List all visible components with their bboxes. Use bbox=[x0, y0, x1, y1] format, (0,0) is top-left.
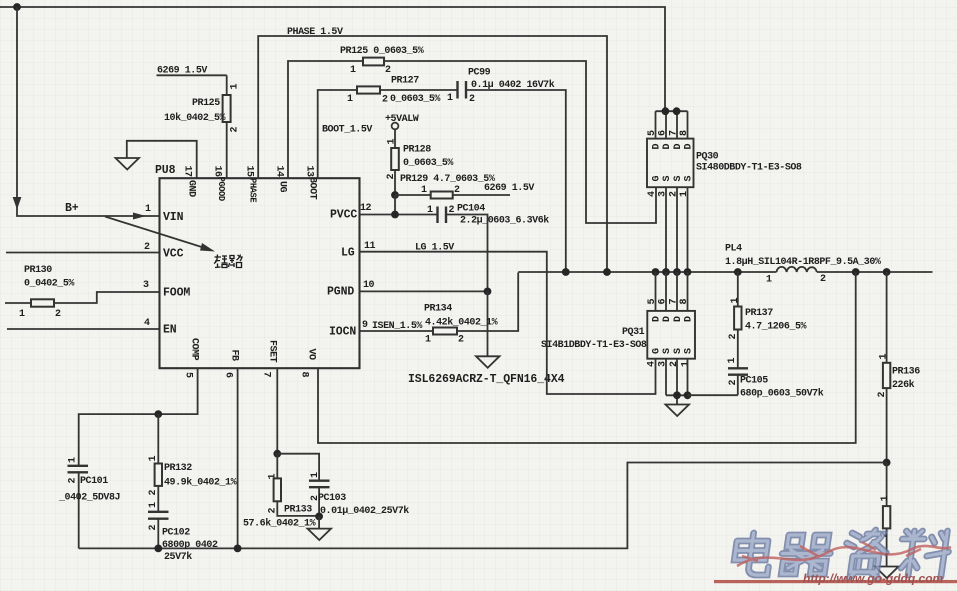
pin 16 PGOOD bbox=[212, 166, 227, 201]
wire B+ drop to VIN bbox=[17, 7, 160, 216]
svg-text:13: 13 bbox=[304, 166, 315, 178]
svg-text:SI480DBDY-T1-E3-SO8: SI480DBDY-T1-E3-SO8 bbox=[696, 163, 802, 174]
svg-text:BOOT_1.5V: BOOT_1.5V bbox=[322, 125, 372, 136]
svg-text:D: D bbox=[684, 144, 695, 150]
wire PQ31 drains to rail bbox=[656, 272, 688, 311]
svg-text:1: 1 bbox=[19, 309, 25, 320]
svg-text:2: 2 bbox=[820, 274, 826, 285]
node junction rail VO bbox=[852, 268, 860, 276]
resistor PR128 bbox=[386, 130, 453, 196]
pin 6 FB bbox=[223, 350, 240, 379]
svg-text:D: D bbox=[662, 316, 673, 322]
svg-text:G: G bbox=[652, 348, 663, 354]
svg-text:S: S bbox=[684, 348, 695, 354]
pin numbers PQ30 top 5 6 7 8 bbox=[647, 130, 690, 136]
svg-text:S: S bbox=[673, 348, 684, 354]
resistor PR133 bbox=[243, 454, 319, 530]
resistor PR132 bbox=[148, 414, 237, 512]
svg-text:57.6k_0402_1%: 57.6k_0402_1% bbox=[243, 518, 316, 530]
svg-text:PC105: PC105 bbox=[740, 376, 768, 387]
wire PR134 to phase rail corner bbox=[457, 273, 518, 332]
svg-text:PR133: PR133 bbox=[284, 505, 312, 516]
svg-text:4.7_1206_5%: 4.7_1206_5% bbox=[745, 322, 807, 333]
svg-text:15: 15 bbox=[244, 166, 255, 178]
svg-text:2: 2 bbox=[148, 525, 159, 531]
svg-text:16: 16 bbox=[212, 166, 223, 178]
ground bottom right symbol bbox=[875, 567, 899, 579]
wire LG net pin11 bbox=[360, 252, 656, 394]
svg-text:S: S bbox=[662, 348, 673, 354]
wire UG net pin14 bbox=[288, 61, 363, 178]
node 短路 label bbox=[214, 255, 242, 268]
svg-text:PR127: PR127 bbox=[391, 76, 419, 87]
node junctions PQ31 source bar bbox=[673, 391, 691, 399]
pin 3 FOOM bbox=[143, 280, 190, 300]
wire VO pin8 loop bbox=[318, 272, 856, 443]
node junction bottom PC102 bbox=[154, 545, 162, 553]
svg-text:COMP: COMP bbox=[189, 338, 200, 361]
transistor Q1 : PQ30 box bbox=[647, 139, 802, 188]
svg-text:2: 2 bbox=[382, 95, 388, 106]
node +5VALW terminal bbox=[385, 114, 419, 129]
svg-text:2: 2 bbox=[877, 392, 888, 398]
node junction FSET bbox=[273, 450, 281, 458]
svg-text:1: 1 bbox=[447, 93, 453, 104]
svg-text:1: 1 bbox=[421, 185, 427, 196]
pin 13 BOOT bbox=[304, 166, 318, 200]
svg-text:0_0603_5%: 0_0603_5% bbox=[390, 94, 440, 105]
capacitor PC99 bbox=[447, 68, 555, 106]
ground GND symbol top-left bbox=[116, 141, 197, 178]
svg-text:2: 2 bbox=[728, 380, 739, 386]
svg-text:G: G bbox=[652, 176, 663, 182]
svg-text:_0402_5DV8J: _0402_5DV8J bbox=[58, 493, 120, 504]
svg-text:5: 5 bbox=[183, 372, 194, 378]
svg-text:S: S bbox=[673, 176, 684, 182]
wire PC99 to phase rail bbox=[466, 90, 566, 272]
node junctions rail at PQ pins bbox=[652, 268, 692, 276]
svg-text:1: 1 bbox=[427, 205, 433, 216]
svg-text:4: 4 bbox=[647, 361, 658, 367]
svg-text:1: 1 bbox=[347, 94, 353, 105]
capacitor PC102 bbox=[148, 502, 218, 563]
wire PQ30 sources to rail bbox=[666, 187, 688, 272]
svg-text:PC101: PC101 bbox=[80, 476, 108, 487]
capacitor PC103 bbox=[309, 472, 409, 517]
capacitor PC105 bbox=[727, 358, 824, 400]
wire EN pin 4 bbox=[7, 328, 160, 330]
svg-text:2: 2 bbox=[669, 361, 680, 367]
capacitor PC104 bbox=[427, 204, 549, 227]
svg-text:PGND: PGND bbox=[327, 286, 354, 299]
svg-text:6: 6 bbox=[223, 372, 234, 378]
svg-text:PU8: PU8 bbox=[155, 164, 176, 177]
wire PGND to ground bbox=[487, 291, 489, 356]
resistor PR127 bbox=[347, 76, 440, 106]
pin 11 LG bbox=[341, 241, 376, 260]
svg-text:FOOM: FOOM bbox=[163, 287, 190, 300]
pin 4 EN bbox=[144, 318, 177, 337]
svg-text:PR136: PR136 bbox=[892, 367, 920, 378]
wire ISEN pin9 bbox=[360, 330, 434, 332]
svg-text:PHASE: PHASE bbox=[248, 178, 258, 202]
resistor PR125 10k bbox=[164, 75, 241, 178]
svg-text:0_0603_5%: 0_0603_5% bbox=[403, 158, 453, 169]
svg-text:UG: UG bbox=[277, 181, 288, 193]
svg-text:GND: GND bbox=[186, 180, 197, 197]
wire feedback loop to bottom bbox=[79, 463, 887, 549]
svg-text:2.2μ_0603_6.3V6k: 2.2μ_0603_6.3V6k bbox=[460, 215, 549, 227]
wire VCC pin 2 bbox=[6, 252, 160, 254]
svg-text:D: D bbox=[673, 144, 684, 150]
svg-text:1: 1 bbox=[727, 358, 738, 364]
svg-text:5: 5 bbox=[647, 299, 658, 305]
svg-text:14: 14 bbox=[274, 166, 285, 178]
svg-text:PL4: PL4 bbox=[725, 244, 742, 255]
svg-text:8: 8 bbox=[679, 299, 690, 305]
node B+ bbox=[65, 202, 79, 215]
svg-text:2: 2 bbox=[148, 490, 159, 496]
svg-text:PR134: PR134 bbox=[424, 304, 452, 315]
svg-text:PC99: PC99 bbox=[468, 68, 491, 79]
wire FB pin6 bbox=[237, 368, 239, 548]
svg-text:0.01μ_0402_25V7k: 0.01μ_0402_25V7k bbox=[320, 505, 409, 517]
svg-text:2: 2 bbox=[385, 65, 391, 76]
svg-text:2: 2 bbox=[386, 174, 397, 180]
node junction PVCC bbox=[391, 211, 399, 219]
svg-text:17: 17 bbox=[182, 166, 193, 178]
svg-text:1: 1 bbox=[268, 474, 279, 480]
svg-text:12: 12 bbox=[360, 203, 372, 214]
node BOOT_1.5V label bbox=[322, 125, 372, 136]
resistor PR125 0_0603 bbox=[340, 46, 424, 76]
svg-text:1: 1 bbox=[880, 496, 891, 502]
svg-text:6: 6 bbox=[658, 130, 669, 136]
svg-text:EN: EN bbox=[163, 324, 177, 337]
wire PQ30 drain bar bbox=[656, 111, 688, 138]
svg-text:49.9k_0402_1%: 49.9k_0402_1% bbox=[164, 477, 237, 489]
svg-text:0_0402_5%: 0_0402_5% bbox=[24, 279, 74, 290]
pin numbers PQ31 bottom 4 3 2 1 bbox=[647, 361, 692, 367]
svg-text:2: 2 bbox=[68, 478, 79, 484]
node IC part number bbox=[408, 373, 565, 386]
svg-text:6269 1.5V: 6269 1.5V bbox=[484, 183, 534, 194]
svg-text:2: 2 bbox=[454, 185, 460, 196]
arrow into VIN pin 1 bbox=[133, 213, 146, 220]
svg-text:1: 1 bbox=[425, 335, 431, 346]
node 6269 1.5V label top-left bbox=[157, 66, 227, 77]
svg-text:8: 8 bbox=[679, 130, 690, 136]
ground PQ31 symbol bbox=[666, 405, 690, 417]
pin 8 VO bbox=[299, 349, 317, 378]
svg-text:10: 10 bbox=[363, 280, 375, 291]
pin numbers PQ30 bottom 4 3 2 1 bbox=[647, 191, 690, 197]
node junction rail PHASE bbox=[603, 268, 611, 276]
node junction rail PR137 bbox=[734, 268, 742, 276]
svg-text:7: 7 bbox=[669, 130, 680, 136]
svg-text:680p_0603_50V7k: 680p_0603_50V7k bbox=[740, 388, 824, 400]
wire red accents of watermark bbox=[737, 542, 951, 566]
pin 17 GND bbox=[182, 166, 197, 198]
node junction rail PR136 bbox=[883, 268, 891, 276]
node LG 1.5V label bbox=[415, 243, 454, 254]
svg-text:PC103: PC103 bbox=[318, 493, 346, 504]
svg-text:1: 1 bbox=[145, 204, 151, 215]
svg-text:D: D bbox=[684, 316, 695, 322]
pin 12 PVCC bbox=[330, 203, 372, 222]
svg-text:VO: VO bbox=[306, 349, 317, 361]
svg-text:1: 1 bbox=[730, 298, 741, 304]
wire PC105 to PQ31 ground bar bbox=[688, 394, 738, 396]
svg-text:2: 2 bbox=[458, 335, 464, 346]
svg-text:7: 7 bbox=[669, 299, 680, 305]
pin 2 VCC bbox=[144, 242, 184, 261]
wire COMP pin5 network bbox=[79, 368, 198, 466]
node PHASE 1.5V label bbox=[287, 27, 343, 38]
wire top B+ rail bbox=[0, 7, 665, 111]
node junction rail PC99 bbox=[562, 268, 570, 276]
wire BOOT net pin13 bbox=[318, 90, 357, 178]
svg-text:9: 9 bbox=[362, 320, 368, 331]
pin 7 FSET bbox=[261, 340, 278, 378]
wire PR127 to PC99 bbox=[380, 89, 458, 91]
svg-text:2: 2 bbox=[728, 334, 739, 340]
svg-text:1: 1 bbox=[148, 502, 159, 508]
pin labels PQ30 G S S S bbox=[652, 176, 695, 182]
pin 15 PHASE bbox=[244, 166, 258, 203]
svg-text:1: 1 bbox=[68, 457, 79, 463]
svg-text:2: 2 bbox=[144, 242, 150, 253]
wire PC104 to phase rail bbox=[446, 215, 488, 292]
wire PGND pin10 bbox=[360, 290, 488, 292]
svg-text:1: 1 bbox=[310, 472, 321, 478]
wire PVCC pin12 bbox=[360, 195, 438, 215]
svg-text:4: 4 bbox=[144, 318, 150, 329]
svg-text:FSET: FSET bbox=[267, 340, 278, 363]
svg-text:PQ31: PQ31 bbox=[622, 327, 645, 338]
resistor PR136 bbox=[877, 272, 920, 463]
svg-text:PC104: PC104 bbox=[457, 204, 485, 215]
svg-text:25V7k: 25V7k bbox=[164, 551, 192, 563]
svg-text:PC102: PC102 bbox=[162, 528, 190, 539]
svg-text:PVCC: PVCC bbox=[330, 209, 357, 222]
ground PC103 symbol bbox=[308, 516, 332, 540]
svg-text:PR137: PR137 bbox=[745, 308, 773, 319]
node junction PR128/PR129 bbox=[391, 191, 399, 199]
svg-text:PQ30: PQ30 bbox=[696, 152, 719, 163]
svg-text:2: 2 bbox=[469, 94, 475, 105]
wire FSET to PC103 bbox=[277, 454, 319, 481]
pin 5 COMP bbox=[183, 338, 200, 378]
svg-text:http://www.go-gddq.com: http://www.go-gddq.com bbox=[803, 572, 944, 586]
arrow short-circuit annotation bbox=[105, 217, 215, 252]
svg-text:S: S bbox=[684, 176, 695, 182]
wire phase rail bbox=[518, 271, 932, 273]
pin 14 UG bbox=[274, 166, 288, 193]
svg-text:3: 3 bbox=[143, 280, 149, 291]
node junction on top rail bbox=[13, 3, 21, 11]
pin labels PQ31 G S S S bbox=[652, 348, 695, 354]
op-amp U1 : IC PU8 ISL6269 box bbox=[155, 164, 360, 368]
svg-text:1: 1 bbox=[387, 139, 398, 145]
resistor PR129 bbox=[395, 174, 510, 199]
svg-text:PR129 4.7_0603_5%: PR129 4.7_0603_5% bbox=[400, 174, 495, 185]
svg-text:2: 2 bbox=[230, 127, 241, 133]
svg-text:PR125 0_0603_5%: PR125 0_0603_5% bbox=[340, 46, 424, 57]
svg-text:1: 1 bbox=[879, 354, 890, 360]
node watermark url text bbox=[803, 572, 944, 586]
resistor PR137 bbox=[728, 272, 807, 368]
wire FSET pin7 bbox=[276, 368, 278, 454]
resistor R bottom right bbox=[880, 463, 892, 567]
svg-text:VCC: VCC bbox=[163, 248, 184, 261]
svg-text:LG 1.5V: LG 1.5V bbox=[415, 243, 454, 254]
svg-text:6: 6 bbox=[658, 299, 669, 305]
svg-text:PR125: PR125 bbox=[192, 98, 220, 109]
svg-text:SI4B1DBDY-T1-E3-SO8: SI4B1DBDY-T1-E3-SO8 bbox=[541, 340, 647, 351]
node ISEN_1.5% label bbox=[372, 321, 422, 332]
svg-text:7: 7 bbox=[261, 372, 272, 378]
svg-text:8: 8 bbox=[299, 372, 310, 378]
svg-text:5: 5 bbox=[647, 130, 658, 136]
node junction drain bar bbox=[662, 107, 681, 115]
resistor PR130 bbox=[19, 265, 74, 320]
svg-text:LG: LG bbox=[341, 247, 355, 260]
pin labels PQ31 D D D D bbox=[652, 316, 695, 322]
svg-text:B+: B+ bbox=[65, 202, 79, 215]
svg-text:1.8μH_SIL104R-1R8PF_9.5A_30%: 1.8μH_SIL104R-1R8PF_9.5A_30% bbox=[725, 257, 881, 268]
svg-text:1: 1 bbox=[766, 275, 772, 286]
node junction PGND bbox=[484, 288, 492, 296]
svg-text:D: D bbox=[662, 144, 673, 150]
svg-text:4: 4 bbox=[647, 191, 658, 197]
svg-text:226k: 226k bbox=[892, 379, 915, 391]
node red underline bbox=[714, 580, 957, 583]
transistor Q2 : PQ31 box bbox=[541, 311, 695, 359]
node junction bottom FB bbox=[234, 545, 242, 553]
svg-text:1: 1 bbox=[350, 65, 356, 76]
svg-text:D: D bbox=[652, 316, 663, 322]
wire FOOM pin 3 with jog bbox=[5, 292, 160, 303]
pin 9 IOCN bbox=[329, 320, 368, 339]
svg-text:PR132: PR132 bbox=[164, 463, 192, 474]
svg-text:IOCN: IOCN bbox=[329, 326, 356, 339]
svg-text:PR130: PR130 bbox=[24, 265, 52, 276]
svg-text:10k_0402_5%: 10k_0402_5% bbox=[164, 112, 226, 124]
arrow down on B+ drop bbox=[13, 197, 22, 210]
resistor PR134 bbox=[424, 304, 498, 346]
ground PGND symbol bbox=[476, 356, 500, 368]
svg-text:2: 2 bbox=[55, 309, 61, 320]
svg-text:D: D bbox=[673, 316, 684, 322]
inductor PL4 bbox=[725, 244, 881, 286]
svg-text:S: S bbox=[662, 176, 673, 182]
svg-text:ISL6269ACRZ-T_QFN16_4X4: ISL6269ACRZ-T_QFN16_4X4 bbox=[408, 373, 565, 386]
wire PHASE net pin15 to phase rail bbox=[258, 36, 607, 272]
svg-text:FB: FB bbox=[229, 350, 240, 362]
svg-text:2: 2 bbox=[268, 508, 279, 514]
svg-text:BOOT: BOOT bbox=[307, 177, 318, 200]
svg-text:4.42k_0402_1%: 4.42k_0402_1% bbox=[425, 317, 498, 329]
pin labels PQ30 D D D D bbox=[652, 144, 695, 150]
svg-text:1: 1 bbox=[230, 84, 241, 90]
node junction feedback bbox=[883, 459, 891, 467]
node junction COMP/PR132 bbox=[154, 410, 162, 418]
svg-text:PGOOD: PGOOD bbox=[216, 177, 226, 201]
svg-text:1: 1 bbox=[681, 361, 692, 367]
node 6269 1.5V label right bbox=[484, 183, 534, 194]
wire PQ31 sources to ground bar bbox=[666, 359, 688, 405]
capacitor PC101 bbox=[58, 457, 120, 548]
pin numbers PQ31 top 5 6 7 8 bbox=[647, 299, 690, 305]
svg-text:D: D bbox=[652, 144, 663, 150]
svg-text:+5VALW: +5VALW bbox=[385, 114, 419, 125]
svg-text:6800p_0402: 6800p_0402 bbox=[162, 540, 218, 551]
pin 1 VIN bbox=[145, 204, 184, 224]
svg-text:ISEN_1.5%: ISEN_1.5% bbox=[372, 321, 422, 332]
svg-text:PR128: PR128 bbox=[403, 145, 431, 156]
watermark 电器资料 bbox=[714, 530, 957, 586]
svg-text:1: 1 bbox=[148, 456, 159, 462]
pin 10 PGND bbox=[327, 280, 375, 299]
node junction PC103 ground bbox=[315, 513, 323, 521]
svg-text:11: 11 bbox=[364, 241, 376, 252]
svg-text:VIN: VIN bbox=[163, 211, 184, 224]
svg-text:PHASE 1.5V: PHASE 1.5V bbox=[287, 27, 343, 38]
wire UG to PQ30 gate bbox=[384, 61, 656, 223]
